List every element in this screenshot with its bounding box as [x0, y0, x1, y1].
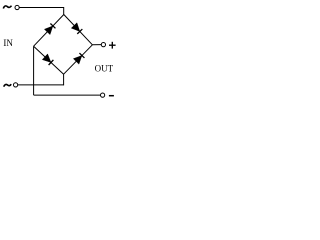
terminal circle top-left — [15, 5, 19, 9]
svg-text:IN: IN — [3, 38, 13, 48]
terminal circle bottom-left — [14, 83, 18, 87]
wire: arm left vertex to top vertex (node A at top) — [34, 15, 64, 47]
plus sign — [109, 42, 116, 49]
wire: negative rail to output terminal — [34, 94, 101, 96]
wire: bottom vertex drop — [63, 74, 65, 85]
wire: right vertex to plus terminal — [92, 44, 101, 46]
minus sign — [109, 95, 114, 97]
diode D4 (bottom to right) — [73, 53, 84, 64]
wire: top AC input to top node — [19, 8, 64, 15]
AC tilde bottom-left — [4, 84, 12, 87]
AC tilde top-left — [3, 6, 11, 9]
wire: arm bottom vertex to right vertex — [64, 45, 93, 74]
terminal circle plus output — [101, 43, 105, 47]
terminal circle minus output — [101, 93, 105, 97]
wire: arm top vertex to right vertex — [64, 15, 93, 45]
wire: arm left vertex to bottom vertex — [34, 46, 64, 74]
background — [0, 0, 120, 104]
diode D2 (top to right) — [71, 23, 82, 34]
svg-text:OUT: OUT — [95, 63, 114, 73]
wire: left vertex down to negative rail — [33, 46, 35, 95]
diode D1 (left to top) — [44, 24, 55, 35]
diode D3 (left to bottom) — [42, 54, 53, 65]
wire: bottom AC input to bottom node — [18, 84, 64, 86]
